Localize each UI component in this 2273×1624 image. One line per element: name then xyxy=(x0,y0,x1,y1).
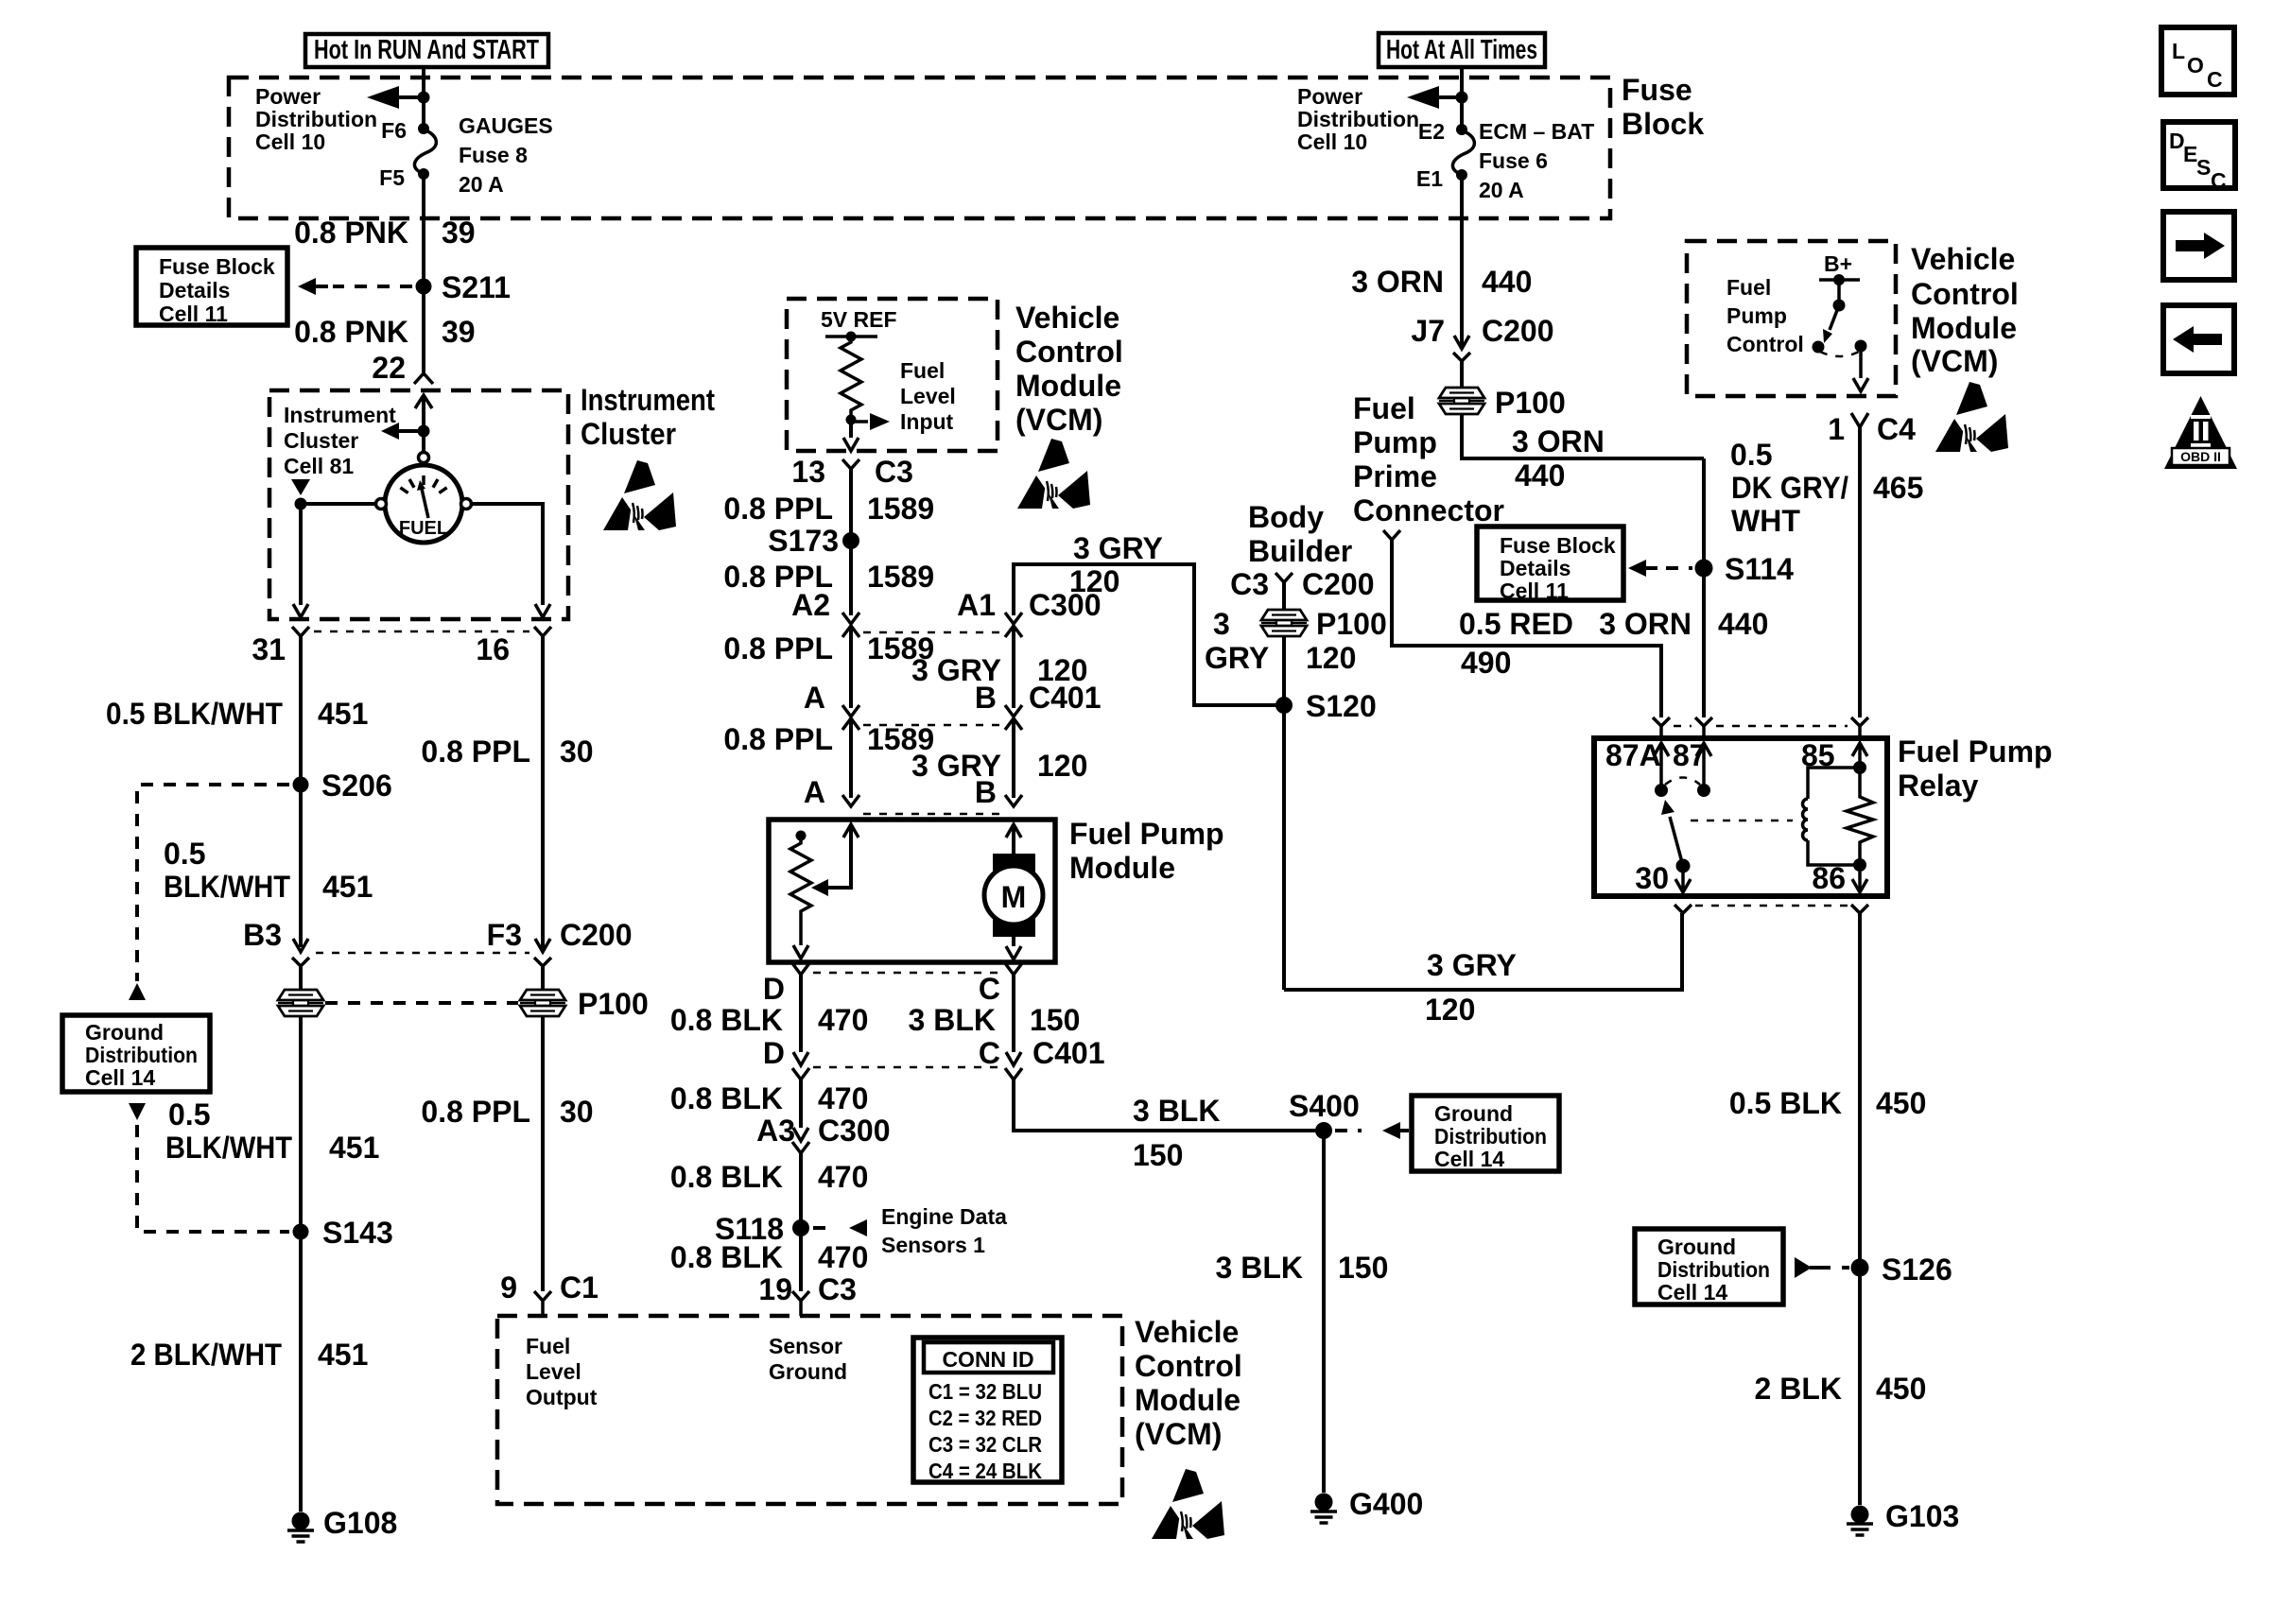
open arrow up at wiper top xyxy=(843,824,859,838)
svg-text:451: 451 xyxy=(329,1131,379,1165)
arrowhead pointing left (engine data sensors ref) xyxy=(849,1219,867,1236)
connector Y below B3 xyxy=(292,958,309,966)
connector Y terminal at pin 13 C3 xyxy=(842,459,859,469)
svg-text:G103: G103 xyxy=(1885,1499,1959,1533)
gauge needle xyxy=(422,489,428,518)
svg-text:13: 13 xyxy=(791,455,825,489)
dashed line between P100 grommets xyxy=(325,1001,518,1005)
svg-text:D: D xyxy=(763,972,785,1006)
arrowhead pointing right (S126 ref) xyxy=(1795,1257,1812,1278)
svg-text:E1: E1 xyxy=(1416,166,1443,191)
svg-text:Prime: Prime xyxy=(1353,459,1437,493)
wire 0.8 PNK 39 from S211 to instrument cluster xyxy=(422,286,425,372)
Fuel Pump Relay box xyxy=(1594,738,1887,896)
ESD sensitivity symbol (instrument cluster) xyxy=(603,460,676,530)
open arrow down at pin 30 xyxy=(1675,879,1691,892)
svg-text:C1 = 32 BLU: C1 = 32 BLU xyxy=(928,1379,1042,1404)
wiper arrowhead pointing left into resistor xyxy=(811,879,828,896)
open arrow up at pin 85 xyxy=(1852,743,1867,756)
connector Y terminal at pin 9 C1 xyxy=(534,1291,551,1316)
fuse F5 terminal dot xyxy=(418,168,429,180)
CONN ID header box xyxy=(924,1342,1053,1373)
svg-text:Builder: Builder xyxy=(1248,534,1352,568)
svg-text:C: C xyxy=(2211,168,2227,193)
svg-text:3 BLK: 3 BLK xyxy=(1216,1251,1303,1285)
wire break chevron above instrument cluster xyxy=(414,373,433,384)
ground G108 symbol xyxy=(287,1512,314,1543)
arrow tail stub xyxy=(316,285,328,288)
svg-text:Sensor: Sensor xyxy=(769,1334,842,1358)
arrowhead pointing right (fuel level input) xyxy=(870,413,890,430)
svg-text:Module: Module xyxy=(1015,369,1121,403)
svg-text:87: 87 xyxy=(1673,738,1707,772)
svg-text:O: O xyxy=(2187,53,2204,78)
svg-text:Cell 10: Cell 10 xyxy=(255,130,325,154)
connector C401 lower arrow at A xyxy=(842,718,859,730)
pin 85 stub wire xyxy=(1858,743,1862,768)
connector Y below module pin D xyxy=(792,963,809,975)
svg-text:Level: Level xyxy=(900,384,956,408)
svg-text:S143: S143 xyxy=(322,1216,393,1250)
wire 0.8 PPL 1589 between C300 and C401 xyxy=(849,626,853,708)
fuel gauge top terminal circle xyxy=(419,453,429,463)
svg-text:F3: F3 xyxy=(487,918,522,952)
svg-text:C200: C200 xyxy=(560,918,633,952)
svg-text:C: C xyxy=(979,1036,1000,1070)
svg-text:F6: F6 xyxy=(381,118,407,143)
svg-text:470: 470 xyxy=(818,1240,868,1274)
svg-text:C200: C200 xyxy=(1482,314,1554,348)
fuse ECM-BAT Fuse 6 20 A (S-curve element) xyxy=(1452,130,1474,175)
arrowhead pointing left into fuse block details box xyxy=(298,278,316,295)
svg-text:0.8 BLK: 0.8 BLK xyxy=(670,1003,783,1037)
svg-text:S211: S211 xyxy=(442,270,511,304)
svg-text:C2 = 32 RED: C2 = 32 RED xyxy=(928,1406,1042,1430)
svg-text:150: 150 xyxy=(1338,1251,1388,1285)
fuel gauge left terminal circle xyxy=(376,499,387,510)
fuel pump prime connector Y terminal xyxy=(1383,530,1400,540)
wire into fuel gauge xyxy=(422,395,425,452)
splice S118 dot xyxy=(792,1219,809,1236)
svg-text:0.8 PPL: 0.8 PPL xyxy=(723,631,833,665)
connector Y at module pin B xyxy=(1005,795,1022,806)
svg-text:440: 440 xyxy=(1515,458,1565,492)
svg-text:Control: Control xyxy=(1911,277,2019,311)
svg-text:Details: Details xyxy=(1500,556,1570,580)
dashed reference wire from S114 xyxy=(1666,566,1692,570)
svg-text:120: 120 xyxy=(1037,749,1087,783)
connector Y below relay pin 30 xyxy=(1674,905,1692,913)
svg-text:P100: P100 xyxy=(578,987,649,1021)
wire from C200 to P100 grommet xyxy=(1460,361,1464,388)
wire branch to power distribution arrow (right) xyxy=(1437,95,1462,99)
wire 2 BLK 450 from S126 to G103 xyxy=(1858,1268,1862,1505)
dashed reference wire from S211 to fuse block details box xyxy=(333,285,412,288)
svg-text:1589: 1589 xyxy=(867,560,934,594)
wire 0.8 PPL 1589 from C401 to fuel pump module xyxy=(849,718,853,798)
open arrow entering cluster (pointing up) xyxy=(415,395,432,408)
icon box left arrow xyxy=(2163,305,2234,373)
svg-text:BLK/WHT: BLK/WHT xyxy=(164,870,290,904)
svg-text:S120: S120 xyxy=(1306,689,1377,723)
splice S126 dot xyxy=(1851,1259,1869,1277)
wire 3 BLK 150 from S400 to G400 xyxy=(1322,1131,1326,1493)
connector C300 upper Y at A1 xyxy=(1005,613,1022,624)
svg-text:(VCM): (VCM) xyxy=(1135,1417,1222,1451)
module bottom mating dashed line xyxy=(813,972,1000,975)
svg-text:GAUGES: GAUGES xyxy=(459,113,553,138)
connector Y below relay pin 86 xyxy=(1851,905,1868,913)
svg-text:2 BLK: 2 BLK xyxy=(1755,1372,1842,1406)
arrow tail stub (S400 ref) xyxy=(1400,1129,1409,1132)
svg-text:Ground: Ground xyxy=(769,1359,847,1384)
svg-text:FUEL: FUEL xyxy=(399,518,448,539)
svg-text:Distribution: Distribution xyxy=(85,1043,198,1067)
svg-text:39: 39 xyxy=(442,315,476,349)
wire from gauge left terminal to left drop xyxy=(301,502,375,506)
svg-text:Vehicle: Vehicle xyxy=(1015,301,1119,335)
connector Y terminal at C3 C200 (body builder) xyxy=(1275,573,1293,582)
svg-text:Fuel: Fuel xyxy=(1726,275,1771,300)
wire from B+ to switch pivot xyxy=(1837,280,1841,305)
svg-text:0.8 PPL: 0.8 PPL xyxy=(421,1095,530,1129)
svg-text:C4: C4 xyxy=(1877,412,1916,446)
svg-text:Fuse Block: Fuse Block xyxy=(1500,533,1616,558)
module top mating dashed line xyxy=(863,813,1000,816)
svg-text:1: 1 xyxy=(1828,412,1845,446)
wire 0.8 PPL 1589 from S173 to A2 xyxy=(849,541,853,615)
gauge tick marks xyxy=(400,475,446,493)
Fuse Block Details Cell 11 reference box (left) xyxy=(136,248,287,326)
svg-text:Module: Module xyxy=(1911,311,2017,345)
svg-text:Ground: Ground xyxy=(1657,1235,1736,1259)
svg-text:Power: Power xyxy=(255,84,321,109)
svg-text:Cell 11: Cell 11 xyxy=(1500,579,1569,603)
reference arrowhead pointing down below ground distribution box xyxy=(129,1103,146,1120)
svg-text:D: D xyxy=(763,1036,785,1070)
relay switch blade arrowhead xyxy=(1661,800,1674,815)
fuse F6 terminal dot xyxy=(418,123,429,134)
wire 0.5 BLK/WHT 451 from pin 31 to S206 xyxy=(299,636,303,785)
open arrow down at VCM box edge (C4) xyxy=(1853,378,1868,391)
svg-text:Output: Output xyxy=(526,1385,598,1409)
svg-text:3 ORN: 3 ORN xyxy=(1599,607,1692,641)
fuse GAUGES Fuse 8 20 A (S-curve element) xyxy=(414,130,436,174)
svg-text:A2: A2 xyxy=(791,588,830,622)
splice S206 dot xyxy=(293,777,309,793)
svg-text:Relay: Relay xyxy=(1898,769,1979,803)
wiper wire from pin A down and left xyxy=(824,824,851,888)
connector C401 upper Y at A xyxy=(842,705,859,717)
svg-text:3 ORN: 3 ORN xyxy=(1512,424,1605,458)
svg-text:Fuel Pump: Fuel Pump xyxy=(1898,734,2053,769)
svg-text:E2: E2 xyxy=(1418,119,1445,144)
motor brush pad top xyxy=(993,854,1035,876)
connector Y above relay 85 xyxy=(1851,717,1868,726)
connector C401 upper arrow at D xyxy=(793,1052,808,1065)
svg-text:Distribution: Distribution xyxy=(255,107,377,131)
splice S143 dot xyxy=(293,1224,309,1240)
wire from resistor to box edge with open down arrow xyxy=(849,420,853,438)
connector C200 arrow down at J7 xyxy=(1454,336,1469,349)
svg-text:Fuse: Fuse xyxy=(1622,73,1692,107)
header box "Hot At All Times" xyxy=(1379,33,1545,67)
wire 0.8 BLK 470 from module D to C401 xyxy=(799,975,803,1052)
relay actuation dashed line xyxy=(1691,820,1793,822)
svg-text:0.8 BLK: 0.8 BLK xyxy=(670,1240,783,1274)
wire 0.8 BLK 470 from S118 to pin 19 C3 xyxy=(799,1228,803,1291)
svg-text:S126: S126 xyxy=(1882,1253,1952,1287)
svg-text:Distribution: Distribution xyxy=(1297,107,1419,131)
arrowhead pointing left (power distribution left) xyxy=(367,86,399,109)
svg-text:C1: C1 xyxy=(560,1270,599,1304)
svg-text:Cell 14: Cell 14 xyxy=(1434,1147,1504,1171)
wire from B3 to P100 splice xyxy=(299,966,303,990)
svg-text:Control: Control xyxy=(1135,1349,1242,1383)
svg-text:Engine Data: Engine Data xyxy=(881,1204,1007,1229)
svg-text:440: 440 xyxy=(1482,265,1532,299)
svg-text:J7: J7 xyxy=(1411,314,1445,348)
ESD sensitivity symbol (middle VCM) xyxy=(1017,439,1090,509)
svg-text:Cluster: Cluster xyxy=(284,428,358,453)
pass-through grommet P100 (left) xyxy=(278,990,323,1016)
node dot at 5V REF xyxy=(846,332,857,342)
Fuel Pump Module box xyxy=(769,820,1055,962)
svg-text:BLK/WHT: BLK/WHT xyxy=(165,1131,292,1165)
fuel pump motor circle xyxy=(984,866,1043,924)
svg-text:WHT: WHT xyxy=(1731,504,1800,538)
open arrow pointing down at cluster box edge (pin 31) xyxy=(293,604,308,617)
fuel gauge FUEL (circle) xyxy=(385,465,462,543)
wire 0.8 PPL 30 from pin 16 to F3 xyxy=(541,636,545,948)
relay switch blade from pin 30 xyxy=(1670,817,1683,866)
svg-text:Pump: Pump xyxy=(1726,303,1787,328)
svg-text:150: 150 xyxy=(1030,1003,1080,1037)
5V REF terminal bar xyxy=(825,335,877,338)
icon box DESC xyxy=(2163,122,2235,193)
svg-text:Fuel: Fuel xyxy=(1353,391,1415,425)
wire from right contact down to box edge xyxy=(1859,346,1863,378)
svg-text:C300: C300 xyxy=(818,1114,891,1148)
svg-text:120: 120 xyxy=(1306,641,1356,675)
connector Y terminal at pin 1 C4 xyxy=(1851,413,1868,427)
switch blade arrowhead xyxy=(1823,329,1832,343)
svg-text:Connector: Connector xyxy=(1353,493,1504,527)
svg-text:Cell 14: Cell 14 xyxy=(85,1065,155,1090)
pin 87A contact dot xyxy=(1655,784,1668,797)
svg-text:Vehicle: Vehicle xyxy=(1911,242,2015,276)
junction dot inside cluster xyxy=(418,425,430,438)
svg-text:P100: P100 xyxy=(1316,607,1387,641)
sender variable resistor (zigzag) xyxy=(790,836,811,945)
svg-text:OBD II: OBD II xyxy=(2180,449,2221,464)
branch wire to Fuel Level Input arrow xyxy=(851,420,868,423)
pass-through grommet P100 (body builder) xyxy=(1261,610,1307,636)
svg-text:Input: Input xyxy=(900,409,954,434)
motor bottom wire xyxy=(1012,924,1015,946)
svg-text:Ground: Ground xyxy=(1434,1101,1513,1126)
wire 0.5 BLK 450 from relay 86 to S126 xyxy=(1858,913,1862,1268)
connector C401 upper Y at B xyxy=(1005,705,1022,717)
svg-text:150: 150 xyxy=(1133,1138,1183,1172)
CONN ID table box xyxy=(913,1338,1062,1482)
node dot at B+ xyxy=(1833,274,1845,285)
connector Y at module pin A xyxy=(842,795,859,806)
svg-text:CONN ID: CONN ID xyxy=(942,1347,1033,1372)
svg-text:C: C xyxy=(979,972,1000,1006)
svg-text:0.8 PNK: 0.8 PNK xyxy=(294,216,408,250)
svg-text:0.8 PPL: 0.8 PPL xyxy=(421,734,530,769)
dashed gap segment (S126 ref) xyxy=(1842,1266,1849,1270)
dashed reference wire from S206 to ground distribution box xyxy=(137,785,289,981)
svg-text:0.5: 0.5 xyxy=(1730,438,1772,472)
connector Y above relay 87A xyxy=(1653,717,1670,726)
wire 0.8 PPL 1589 from C3 to S173 xyxy=(849,469,853,541)
connector Y terminal pin 31 xyxy=(292,627,309,636)
svg-text:0.8 PPL: 0.8 PPL xyxy=(723,492,833,526)
wire 3 GRY 120 from C401 to fuel pump module xyxy=(1012,718,1015,798)
pin 87 stub wire xyxy=(1702,743,1706,790)
connector C401 mating dashed line xyxy=(863,724,1000,727)
relay top mating dashed line xyxy=(1674,725,1848,728)
connector C200 mating dashed line xyxy=(316,952,529,955)
svg-text:120: 120 xyxy=(1425,993,1475,1027)
open arrow pointing down at cluster box edge (pin 16) xyxy=(535,604,550,617)
svg-text:Cell 11: Cell 11 xyxy=(159,302,228,326)
svg-text:470: 470 xyxy=(818,1160,868,1194)
wire from Hot In RUN box down to fuse F6 xyxy=(422,67,425,129)
node junction dot at power distribution branch (right) xyxy=(1456,92,1468,104)
coil bottom node dot xyxy=(1853,858,1866,872)
wire 3 ORN 440 from S114 to relay 87 xyxy=(1702,458,1706,717)
svg-text:A: A xyxy=(804,775,825,809)
ESD sensitivity symbol (top right VCM) xyxy=(1935,382,2008,452)
gauge needle arrowhead xyxy=(417,480,425,491)
svg-text:16: 16 xyxy=(476,632,510,666)
icon OBD II triangle xyxy=(2164,396,2237,469)
svg-text:A1: A1 xyxy=(957,588,996,622)
svg-text:B3: B3 xyxy=(243,918,282,952)
connector C200 Y below J7 xyxy=(1453,353,1470,361)
svg-text:2 BLK/WHT: 2 BLK/WHT xyxy=(130,1338,282,1372)
svg-text:Details: Details xyxy=(159,278,230,302)
svg-text:19: 19 xyxy=(758,1272,792,1306)
svg-text:C3: C3 xyxy=(818,1272,857,1306)
svg-text:B: B xyxy=(975,681,997,715)
svg-text:Control: Control xyxy=(1726,332,1804,356)
svg-text:C3: C3 xyxy=(875,455,913,489)
svg-text:G400: G400 xyxy=(1349,1487,1423,1521)
svg-text:450: 450 xyxy=(1876,1086,1926,1120)
svg-text:0.8 PNK: 0.8 PNK xyxy=(294,315,408,349)
splice S211 dot xyxy=(416,279,432,295)
connector C300 arrow down at A3 xyxy=(793,1128,808,1141)
reference arrowhead pointing up above ground distribution box xyxy=(129,983,146,1000)
icon box LOC xyxy=(2161,27,2234,95)
pin 30 wire xyxy=(1681,866,1685,892)
ground G400 symbol xyxy=(1310,1494,1337,1524)
Fuse Block Details Cell 11 reference box (right) xyxy=(1477,527,1623,603)
svg-text:C200: C200 xyxy=(1302,567,1375,601)
svg-text:C: C xyxy=(2207,67,2223,92)
open arrow down at B3 xyxy=(293,939,308,952)
svg-text:Pump: Pump xyxy=(1353,425,1437,459)
svg-text:M: M xyxy=(1001,880,1027,914)
connector C300 upper Y at A2 xyxy=(842,613,859,624)
wire 3 BLK 150 from C401 down to S400 run xyxy=(1014,1080,1316,1131)
svg-text:C401: C401 xyxy=(1032,1036,1105,1070)
svg-text:Instrument: Instrument xyxy=(284,403,396,427)
pass-through grommet P100 (right) xyxy=(520,990,565,1016)
relay bottom mating dashed line xyxy=(1695,905,1848,907)
svg-text:Fuse 6: Fuse 6 xyxy=(1479,148,1548,173)
ground G103 symbol xyxy=(1847,1506,1873,1536)
svg-text:120: 120 xyxy=(1069,564,1119,598)
5V REF dashed box (VCM fuel level input) xyxy=(787,299,998,451)
svg-text:(VCM): (VCM) xyxy=(1911,344,1998,378)
wire from F3 to P100 splice xyxy=(541,966,545,990)
svg-text:0.5: 0.5 xyxy=(164,837,205,871)
fuel gauge right terminal circle xyxy=(461,499,472,510)
svg-text:Level: Level xyxy=(526,1359,581,1384)
fuse E1 terminal dot xyxy=(1456,169,1467,181)
svg-text:L: L xyxy=(2172,39,2185,63)
wire from body builder C200 to P100 xyxy=(1282,582,1286,610)
fuse block dashed outline box (Power Distribution Cell 10) xyxy=(229,78,1610,218)
svg-text:S400: S400 xyxy=(1289,1089,1360,1123)
dashed arc between 87A and 87 contacts xyxy=(1665,778,1700,786)
svg-text:1589: 1589 xyxy=(867,492,934,526)
svg-text:Block: Block xyxy=(1622,107,1704,141)
svg-text:ECM – BAT: ECM – BAT xyxy=(1479,119,1594,144)
svg-text:0.5 RED: 0.5 RED xyxy=(1459,607,1573,641)
svg-text:39: 39 xyxy=(442,216,476,250)
ESD sensitivity symbol (bottom VCM) xyxy=(1152,1469,1224,1539)
wire 3 ORN 440 from E1 to J7 xyxy=(1460,175,1464,347)
arrow tail stub (S126 ref) xyxy=(1810,1266,1831,1270)
svg-text:451: 451 xyxy=(318,1338,368,1372)
svg-text:F5: F5 xyxy=(379,165,405,190)
svg-text:Hot In RUN And START: Hot In RUN And START xyxy=(314,35,539,65)
svg-text:Ground: Ground xyxy=(85,1020,164,1045)
open arrow down at pin 86 xyxy=(1852,879,1867,892)
relay coil (left branch) xyxy=(1803,768,1860,865)
svg-text:C3 = 32 CLR: C3 = 32 CLR xyxy=(928,1432,1042,1457)
splice S173 dot xyxy=(842,532,859,549)
svg-text:3 ORN: 3 ORN xyxy=(1351,265,1444,299)
switch contact dot (left) xyxy=(1813,341,1825,354)
Ground Distribution Cell 14 reference box (S400) xyxy=(1412,1096,1559,1171)
svg-text:Power: Power xyxy=(1297,84,1362,109)
svg-text:Cluster: Cluster xyxy=(581,417,676,451)
arrowhead pointing left (S400 ref) xyxy=(1382,1122,1400,1139)
svg-text:86: 86 xyxy=(1812,861,1846,895)
pin 86 wire xyxy=(1858,865,1862,892)
svg-text:Fuel Pump: Fuel Pump xyxy=(1069,817,1224,851)
connector C401 lower Y at D xyxy=(792,1068,809,1080)
svg-text:3 GRY: 3 GRY xyxy=(1427,948,1517,982)
svg-text:Distribution: Distribution xyxy=(1434,1124,1547,1149)
open arrow up at pin 87 xyxy=(1696,743,1711,756)
connector Y terminal pin 16 xyxy=(534,627,551,636)
svg-text:Body: Body xyxy=(1248,500,1324,534)
svg-text:9: 9 xyxy=(500,1270,517,1304)
svg-text:470: 470 xyxy=(818,1003,868,1037)
svg-text:0.8 PPL: 0.8 PPL xyxy=(723,722,833,756)
svg-text:S114: S114 xyxy=(1725,552,1794,586)
wire 3 GRY 120 from S120 run up to relay 30 xyxy=(1284,913,1682,990)
VCM bottom dashed box xyxy=(497,1316,1122,1504)
